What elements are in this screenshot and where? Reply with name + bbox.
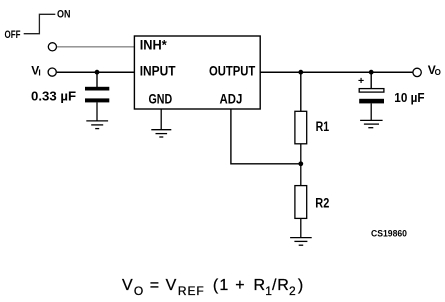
ground (below GND pin): [151, 130, 171, 137]
wire R2 bottom lead: [300, 218, 302, 237]
wire C2 top lead: [370, 72, 372, 89]
svg-text:ADJ: ADJ: [220, 91, 243, 106]
op-amp U1 (regulator IC box): [134, 36, 260, 109]
svg-text:GND: GND: [149, 91, 173, 106]
node C (output junction to C2): [369, 70, 374, 75]
svg-text:10 µF: 10 µF: [394, 91, 425, 105]
wire C2 bottom lead: [370, 103, 372, 120]
svg-text:I: I: [38, 68, 40, 78]
svg-text:R1: R1: [316, 119, 330, 134]
svg-text:INH*: INH*: [140, 38, 168, 53]
svg-text:+: +: [235, 277, 244, 294]
node D (ADJ / R1 / R2 junction dot): [298, 161, 303, 166]
svg-text:=: =: [150, 277, 159, 294]
ground (below C1): [86, 121, 108, 129]
capacitor C1 0.33uF: [85, 87, 109, 91]
resistor R1: [295, 111, 307, 144]
ground (below C2): [360, 120, 383, 127]
svg-text:O: O: [435, 68, 441, 77]
svg-text:ON: ON: [57, 9, 71, 21]
terminal (inhibit input open circle): [48, 43, 56, 51]
node B (output junction to R1): [298, 70, 303, 75]
svg-text:CS19860: CS19860: [371, 229, 407, 239]
svg-text:V: V: [166, 277, 177, 294]
resistor R2: [295, 186, 307, 219]
wire input rail: [57, 71, 135, 73]
terminal VI (open circle): [48, 68, 56, 76]
node A (input junction dot): [95, 70, 100, 75]
wire R1 bottom lead: [300, 144, 302, 164]
svg-text:2: 2: [289, 284, 296, 298]
svg-text:OUTPUT: OUTPUT: [209, 64, 256, 79]
svg-text:+: +: [358, 75, 364, 87]
wire R1 top lead: [300, 72, 302, 111]
svg-text:INPUT: INPUT: [140, 64, 176, 79]
wire C1 top lead: [96, 72, 98, 87]
svg-text:R: R: [254, 277, 266, 294]
wire ADJ pin lead: [231, 109, 301, 164]
svg-text:R2: R2: [315, 195, 329, 210]
capacitor C2 10uF (polarized): [359, 89, 384, 93]
svg-text:(1: (1: [213, 277, 230, 294]
svg-text:0.33 µF: 0.33 µF: [31, 89, 76, 103]
svg-text:R: R: [277, 277, 289, 294]
svg-text:): ): [298, 277, 303, 294]
formula VO = VREF (1 + R1/R2): [122, 277, 303, 298]
svg-text:OFF: OFF: [5, 29, 21, 41]
svg-text:O: O: [134, 284, 143, 298]
wire C1 bottom lead: [96, 102, 98, 121]
svg-text:/: /: [272, 277, 277, 294]
wire R2 top lead: [300, 164, 302, 186]
svg-text:REF: REF: [178, 284, 205, 298]
terminal VO (open circle): [413, 68, 421, 76]
ground (below R2): [290, 238, 312, 246]
svg-text:V: V: [122, 277, 133, 294]
wire output rail: [260, 71, 412, 73]
switch S1 (ON/OFF inhibit switch): [24, 14, 56, 33]
wire GND pin lead: [160, 109, 162, 130]
wire INH (grey): [57, 46, 134, 48]
